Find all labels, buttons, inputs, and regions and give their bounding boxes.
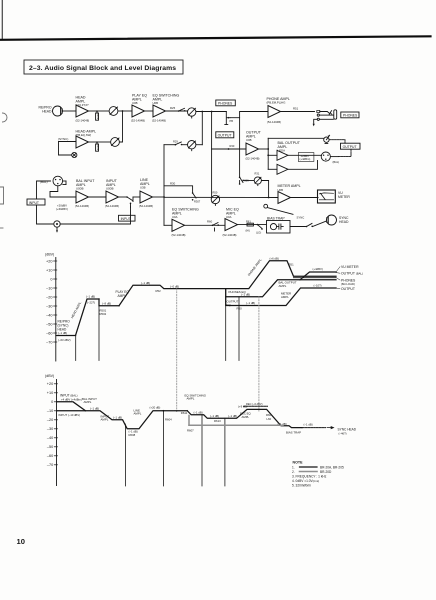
svg-text:R502: R502 (100, 312, 107, 316)
svg-text:(SYNC): (SYNC) (58, 137, 68, 141)
op-amp BAL INPUT AMPL label (75, 179, 95, 208)
svg-text:(+6 dB): (+6 dB) (270, 256, 279, 260)
op-amp MIC EQ AMPL label (223, 208, 239, 238)
section title box (24, 60, 183, 74)
XLR connector (bal output) (321, 152, 330, 161)
op-amp OUTPUT AMPL label (246, 131, 262, 161)
INPUT select label box (119, 215, 136, 221)
trace phones path (226, 261, 336, 289)
svg-text:(–10?): (–10?) (314, 283, 322, 287)
node bal input dashed (57, 401, 73, 403)
svg-text:–20: –20 (46, 295, 52, 299)
wire output amp to split (259, 148, 269, 150)
svg-text:0: 0 (50, 277, 52, 281)
svg-text:–60: –60 (47, 454, 53, 458)
wire R30 branch (164, 186, 193, 193)
svg-text:R611: R611 (181, 411, 188, 415)
svg-text:AMPL: AMPL (118, 294, 127, 298)
svg-text:–30: –30 (46, 304, 52, 308)
svg-text:PHONES: PHONES (218, 102, 233, 106)
PLAY EQ AMPL trace label (116, 290, 130, 298)
svg-text:(52-1404B): (52-1404B) (131, 119, 145, 123)
svg-text:R29: R29 (173, 140, 178, 144)
wire eq sw out (166, 110, 188, 112)
VU meter box (318, 190, 336, 203)
svg-text:–50: –50 (47, 445, 53, 449)
svg-text:R202: R202 (96, 144, 100, 151)
INPUT source box (27, 199, 45, 205)
sync head dashed level (302, 427, 326, 429)
phone jack (unbal input) (54, 221, 60, 233)
svg-text:L60: L60 (267, 417, 272, 421)
op-amp PLAY EQ AMPL label (131, 94, 147, 123)
svg-text:R307: R307 (194, 200, 201, 204)
wire meter amp to VU (291, 197, 319, 199)
page left edge (1, 0, 3, 39)
note item 2 (292, 470, 332, 474)
op-amp PLAY EQ AMPL (132, 105, 145, 117)
wire amp to R201 (89, 110, 98, 112)
svg-text:PHONES: PHONES (343, 114, 358, 118)
resistor R202 (96, 141, 100, 151)
svg-text:(–1 dB): (–1 dB) (141, 281, 150, 285)
SYNC head symbol (327, 215, 337, 225)
dotted reference line 2 (258, 297, 260, 411)
svg-text:U0A: U0A (172, 215, 178, 219)
switch (play mute) (178, 108, 186, 111)
svg-text:(–1 dB): (–1 dB) (90, 406, 99, 410)
op-amp HEAD AMPL (play) (76, 105, 89, 117)
op-amp BAL OUTPUT AMPL (hot) (277, 150, 288, 160)
wire vertical bus A (201, 112, 203, 145)
stage divider d2-3 (201, 415, 203, 486)
svg-text:(52-1404B): (52-1404B) (172, 233, 186, 237)
svg-text:–50: –50 (46, 322, 52, 326)
svg-text:R613: R613 (214, 419, 221, 423)
potentiometer (monitor) (188, 108, 196, 118)
op-amp LINE AMPL (140, 191, 153, 203)
svg-text:(52-1404B): (52-1404B) (75, 204, 89, 208)
svg-text:1/16,3T,6?: 1/16,3T,6? (76, 103, 90, 107)
svg-text:(52-1404B): (52-1404B) (246, 157, 260, 161)
svg-text:10: 10 (17, 537, 25, 546)
PHONES jack label box (341, 112, 359, 118)
svg-text:(–1 dB): (–1 dB) (241, 292, 250, 296)
node unbal input dashed (57, 410, 86, 412)
svg-text:OUTPUT: OUTPUT (341, 287, 355, 291)
svg-text:4. 0dBV =1.0V(rms): 4. 0dBV =1.0V(rms) (292, 479, 319, 483)
svg-text:(HI): (HI) (246, 229, 250, 233)
op-amp PHONE AMPL label (267, 97, 290, 124)
stage divider d2-4 (224, 418, 226, 486)
svg-text:(–8 dB): (–8 dB) (102, 301, 111, 305)
node line bus (163, 410, 165, 412)
wire phone amp to jack (281, 111, 315, 113)
wire unbal/bal split vertical (267, 138, 269, 169)
op-amp HEAD AMPL (play) label (76, 96, 90, 123)
RE/PRO head trace label (58, 320, 71, 342)
wire vertical bus B (record bus) (163, 145, 165, 226)
wire bal amp to input amp (89, 196, 107, 198)
svg-text:R31: R31 (255, 172, 260, 176)
svg-text:3. FREQUENCY : 1 kHz: 3. FREQUENCY : 1 kHz (292, 474, 327, 478)
arrow to sync head (327, 427, 334, 429)
wire play eq to eq sw (145, 110, 154, 112)
svg-text:BR-20D: BR-20D (320, 470, 332, 474)
wire mic eq to network (238, 224, 266, 226)
y axis line (56, 380, 58, 486)
op-amp EQ SWITCHING AMPL (rec) (172, 219, 185, 231)
svg-text:U0B: U0B (153, 101, 159, 105)
trace input amp (86, 411, 188, 429)
svg-text:2.: 2. (292, 470, 295, 474)
wire rec bus to amp (164, 224, 172, 226)
op-amp INPUT AMPL label (105, 179, 119, 208)
wire switch to rec bus (164, 144, 175, 146)
svg-text:U0B: U0B (246, 138, 252, 142)
svg-text:(BAL): (BAL) (333, 160, 340, 164)
level labels on -10 flat (141, 281, 179, 293)
PHONES EQ label (229, 290, 247, 294)
wire switch to line amp (132, 197, 134, 200)
INPUT AMPL trace label (101, 414, 110, 421)
potentiometer (monitor lower) (188, 141, 196, 151)
SYNC HEAD trace label (338, 427, 357, 435)
svg-text:R604: R604 (165, 418, 172, 422)
wire pot to phones bus (196, 111, 226, 113)
R501 R502 label (100, 301, 112, 316)
svg-text:(dBV): (dBV) (45, 253, 54, 257)
BAL INPUT AMPL trace label (82, 397, 97, 404)
svg-text:R50: R50 (213, 191, 218, 195)
wire amp to R202 (89, 141, 98, 143)
op-amp EQ SWITCHING AMPL (rec) label (172, 208, 199, 238)
trace R501 pad (99, 299, 119, 306)
svg-text:R60: R60 (207, 220, 213, 224)
svg-text:HEAD AMPL: HEAD AMPL (70, 301, 82, 319)
svg-text:R50: R50 (237, 306, 243, 310)
svg-text:(–63 dBV): (–63 dBV) (58, 338, 71, 342)
wire to bal amp cold (268, 168, 277, 170)
svg-text:(–1 dB): (–1 dB) (194, 411, 203, 415)
op-amp MIC EQ AMPL (225, 219, 238, 231)
INPUT BAL label (60, 394, 82, 402)
svg-text:SYNC: SYNC (297, 216, 305, 220)
svg-text:U0A: U0A (226, 215, 232, 219)
svg-text:R608: R608 (129, 433, 136, 437)
svg-text:–70: –70 (47, 463, 53, 467)
wire bal hot to XLR (288, 154, 321, 156)
node head level dashed (56, 335, 76, 337)
svg-text:–30: –30 (47, 427, 53, 431)
svg-text:INPUT: INPUT (29, 201, 39, 205)
level label +6dB (270, 256, 295, 266)
wire meter row (164, 196, 278, 198)
svg-text:+20: +20 (47, 382, 53, 386)
SYNC head label (339, 216, 349, 224)
y axis line (55, 258, 57, 362)
trace play eq rise (119, 285, 226, 306)
svg-text:PHONE AMPL: PHONE AMPL (247, 258, 263, 277)
level labels output eq (237, 283, 322, 310)
callout VU METER (336, 265, 359, 272)
wire to bal amp hot (268, 154, 277, 156)
svg-text:(–1 dB): (–1 dB) (228, 414, 237, 418)
wire input bracket (37, 181, 51, 199)
wire pot to play eq amp (118, 110, 132, 112)
wire line amp to rec bus (153, 196, 165, 198)
stage divider (head amp) (98, 299, 100, 361)
svg-text:+10: +10 (46, 268, 52, 272)
op-amp OUTPUT AMPL (246, 143, 259, 155)
svg-text:OUTPUT: OUTPUT (343, 145, 357, 149)
EQ SWITCHING AMPL trace label (185, 393, 207, 400)
note item 1 (292, 465, 344, 469)
trace rec path steps (187, 409, 302, 427)
trace bal input drop (73, 402, 86, 411)
svg-text:(dBV): (dBV) (45, 374, 54, 378)
level label +2dBV (300, 154, 311, 161)
svg-text:NOTE: NOTE (293, 461, 304, 465)
svg-text:(+4dBV): (+4dBV) (313, 267, 323, 271)
svg-text:AMPL: AMPL (242, 415, 250, 419)
svg-text:(–0 dB): (–0 dB) (170, 285, 179, 289)
wire XLR to bal amp (50, 186, 76, 197)
svg-text:1.: 1. (292, 465, 295, 469)
svg-text:AMPL: AMPL (84, 400, 92, 404)
svg-text:AMPL: AMPL (279, 284, 287, 288)
stage divider d2-1 (124, 424, 126, 486)
trace output path (226, 288, 336, 306)
XLR connector (bal input) (53, 176, 66, 186)
op-amp EQ SWITCHING AMPL label (152, 94, 179, 123)
svg-text:U0DB: U0DB (76, 186, 84, 190)
svg-text:(52-1404B): (52-1404B) (152, 119, 166, 123)
wire switch to pot (239, 181, 241, 185)
wire to sync head (313, 221, 327, 227)
OUTPUT source box (216, 132, 234, 138)
wire head to head amp (63, 110, 77, 112)
phones thick underline (294, 277, 337, 279)
switch (sync head select) (306, 223, 313, 227)
svg-text:(–1 dB): (–1 dB) (210, 414, 219, 418)
switch (meter rec) (192, 192, 201, 203)
svg-text:R201: R201 (96, 113, 100, 120)
node output bus top (211, 111, 213, 113)
svg-text:VU METER: VU METER (341, 265, 359, 269)
svg-text:(–1 dB): (–1 dB) (246, 301, 255, 305)
stage divider d2-2 (162, 411, 164, 486)
BIAS TRAP box (267, 221, 291, 234)
VU meter label (338, 191, 350, 199)
svg-text:BIAS TRAP: BIAS TRAP (267, 216, 285, 220)
op-amp EQ SWITCHING AMPL (153, 105, 166, 117)
potentiometer (sync level) (111, 138, 120, 147)
svg-text:–60: –60 (46, 331, 52, 335)
svg-text:+4 dBV (+4dBm): +4 dBV (+4dBm) (61, 398, 82, 402)
node output feed (228, 148, 230, 150)
svg-text:R52: R52 (156, 289, 162, 293)
svg-text:BIAS TRAP: BIAS TRAP (286, 431, 301, 435)
op-amp INPUT AMPL (106, 191, 119, 203)
svg-text:(52-1404B): (52-1404B) (223, 233, 237, 237)
trace bal output path (226, 280, 336, 297)
gray sync feed line (189, 416, 283, 426)
svg-text:(–1 dB): (–1 dB) (58, 331, 67, 335)
callout OUTPUT BAL (336, 272, 363, 276)
RE/PRO head symbol (53, 106, 63, 116)
wire vertical bus C (to output/meter rows) (211, 112, 213, 198)
wire bal cold to XLR (288, 161, 317, 170)
svg-text:–10: –10 (47, 409, 53, 413)
svg-text:(+4dBm): (+4dBm) (300, 157, 311, 161)
trace head amp rise (76, 299, 100, 336)
phones jack (313, 110, 337, 127)
OUTPUT EQ label (227, 300, 239, 308)
wire jack bracket top (329, 140, 345, 144)
switch (meter source) (239, 177, 249, 185)
svg-text:(–1 dB): (–1 dB) (304, 423, 313, 427)
wire XLR out (331, 156, 339, 158)
wire unbal branch (268, 137, 324, 139)
svg-text:+10: +10 (47, 391, 53, 395)
svg-text:BR-20A, BR-205: BR-20A, BR-205 (320, 465, 344, 469)
svg-text:HEAD: HEAD (339, 220, 349, 224)
switch (rec mute) (212, 223, 219, 231)
svg-text:INPUT (–10 dBV): INPUT (–10 dBV) (59, 413, 81, 417)
svg-text:–70: –70 (46, 340, 52, 344)
pin jack (unbal line out) (324, 135, 330, 143)
rec level dashed overlay (244, 405, 268, 407)
svg-text:+20: +20 (46, 259, 52, 263)
svg-text:R51: R51 (289, 263, 295, 267)
op-amp BAL INPUT AMPL (76, 191, 89, 203)
svg-text:5. 320nWb/m: 5. 320nWb/m (292, 483, 311, 487)
trace vu rise (300, 272, 336, 280)
svg-text:(52-14048): (52-14048) (76, 119, 90, 123)
wire pot to bus A (196, 144, 202, 146)
svg-text:AMPL: AMPL (187, 397, 195, 401)
resistor R201 (96, 110, 100, 120)
level label +20dBV (56, 204, 68, 211)
svg-text:2–3. Audio Signal Block and Le: 2–3. Audio Signal Block and Level Diagra… (29, 65, 176, 72)
wire pot wiper to phone amp (230, 112, 268, 118)
svg-text:REC (–6 dBV): REC (–6 dBV) (246, 402, 263, 406)
svg-text:(LO): (LO) (256, 231, 261, 235)
callout OUTPUT (336, 287, 355, 291)
wire R202 to pot (97, 141, 111, 143)
OUTPUT jacks label box (341, 143, 361, 149)
PHONES source box (216, 100, 236, 106)
stage divider (head) (75, 336, 77, 361)
svg-text:U0DA: U0DA (278, 148, 286, 152)
svg-text:–40: –40 (47, 436, 53, 440)
axis ticks and labels (46, 259, 57, 344)
op-amp METER AMPL (278, 192, 291, 204)
svg-text:R51: R51 (293, 107, 299, 111)
potentiometer (phones level, vertical) (225, 112, 233, 125)
svg-text:(52-1404B): (52-1404B) (105, 204, 119, 208)
svg-text:R25: R25 (170, 106, 176, 110)
step labels (181, 411, 237, 424)
potentiometer (meter cal) (254, 172, 261, 186)
wire amp to switch (185, 224, 225, 226)
svg-text:AMPL: AMPL (134, 412, 142, 416)
svg-text:PB: PB (230, 119, 234, 123)
node junction of two head amps (122, 110, 124, 112)
sync line connector (72, 152, 77, 157)
callout PHONES (336, 278, 356, 286)
svg-text:AMPL: AMPL (101, 418, 109, 422)
wire sync pot up to node (120, 111, 123, 142)
svg-text:(8Ω LOAD): (8Ω LOAD) (341, 282, 355, 286)
op-amp HEAD AMPL (sync) label (76, 130, 97, 138)
page top rule (0, 36, 431, 40)
svg-text:–10: –10 (46, 286, 52, 290)
svg-text:U0B: U0B (132, 101, 138, 105)
op-amp PHONE AMPL (268, 106, 281, 118)
dotted reference line 1 (176, 289, 178, 412)
svg-text:METER: METER (338, 195, 350, 199)
svg-text:(–1 dB): (–1 dB) (86, 295, 95, 299)
METER AMPL trace label (281, 292, 291, 299)
svg-text:(–22?): (–22?) (87, 301, 95, 305)
switch (rec/sync to meter) (264, 204, 293, 214)
node play bus (201, 111, 203, 113)
switch (input select) (119, 196, 134, 207)
svg-text:0: 0 (51, 400, 53, 404)
svg-text:(+60dBV): (+60dBV) (56, 207, 68, 211)
svg-text:(PB,EM,PL)HG: (PB,EM,PL)HG (267, 101, 286, 105)
svg-text:(–46?): (–46?) (339, 431, 347, 435)
op-amp BAL OUTPUT AMPL (cold) (277, 164, 288, 174)
wire sync input (59, 142, 77, 156)
svg-text:R607: R607 (187, 429, 194, 433)
wire unbal input to switch (60, 207, 130, 224)
op-amp LINE AMPL label (139, 178, 153, 208)
svg-text:–20: –20 (47, 418, 53, 422)
svg-text:(+20 dB): (+20 dB) (150, 405, 161, 409)
MIC EQ trace label (238, 404, 252, 419)
svg-text:–40: –40 (46, 313, 52, 317)
svg-text:R30: R30 (230, 144, 235, 148)
wire bias trap to sync head (290, 226, 306, 228)
stage divider (line bus) (225, 289, 227, 361)
bias trap drop labels (266, 413, 287, 426)
axis ticks and labels (47, 382, 58, 467)
op-amp HEAD AMPL (sync) (76, 136, 89, 148)
meter feed vertical from phones wiper (239, 118, 241, 177)
op-amp BAL OUTPUT AMPL label (278, 141, 301, 152)
op-amp METER AMPL label (278, 184, 301, 192)
switch (monitor select) (173, 140, 182, 146)
svg-text:(52-1404B): (52-1404B) (267, 120, 281, 124)
svg-text:AMPL: AMPL (281, 295, 289, 299)
potentiometer (play level) (109, 107, 118, 116)
wire pot to meter line (262, 181, 269, 198)
stage divider (output eq) (238, 297, 240, 361)
input eq labels (129, 429, 138, 437)
page edge artifact marks (0, 113, 7, 228)
svg-text:(52-1404B): (52-1404B) (139, 204, 153, 208)
resistor network HI/LO (246, 220, 263, 235)
svg-text:U0DB: U0DB (106, 186, 114, 190)
svg-text:U3B: U3B (140, 185, 146, 189)
wire jack bracket bottom (339, 149, 352, 156)
level label -22 (86, 295, 95, 305)
svg-text:OUTPUT: OUTPUT (218, 134, 232, 138)
potentiometer (meter row) (211, 191, 219, 206)
